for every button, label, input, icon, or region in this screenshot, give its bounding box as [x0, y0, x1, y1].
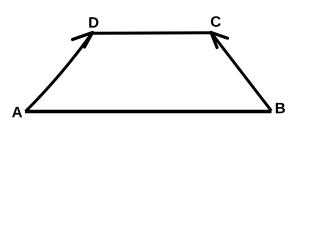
arrowhead at C: [211, 33, 228, 48]
side AD (left leg): [26, 33, 93, 112]
vertex label D: [89, 17, 98, 27]
vertex label A: [12, 107, 22, 117]
vertex label C: [211, 16, 221, 27]
arrowhead at D: [73, 33, 93, 48]
side AB (bottom): [25, 110, 272, 113]
side BC (right leg): [211, 33, 271, 111]
vertex label B: [276, 103, 285, 113]
side DC (top): [93, 31, 212, 35]
